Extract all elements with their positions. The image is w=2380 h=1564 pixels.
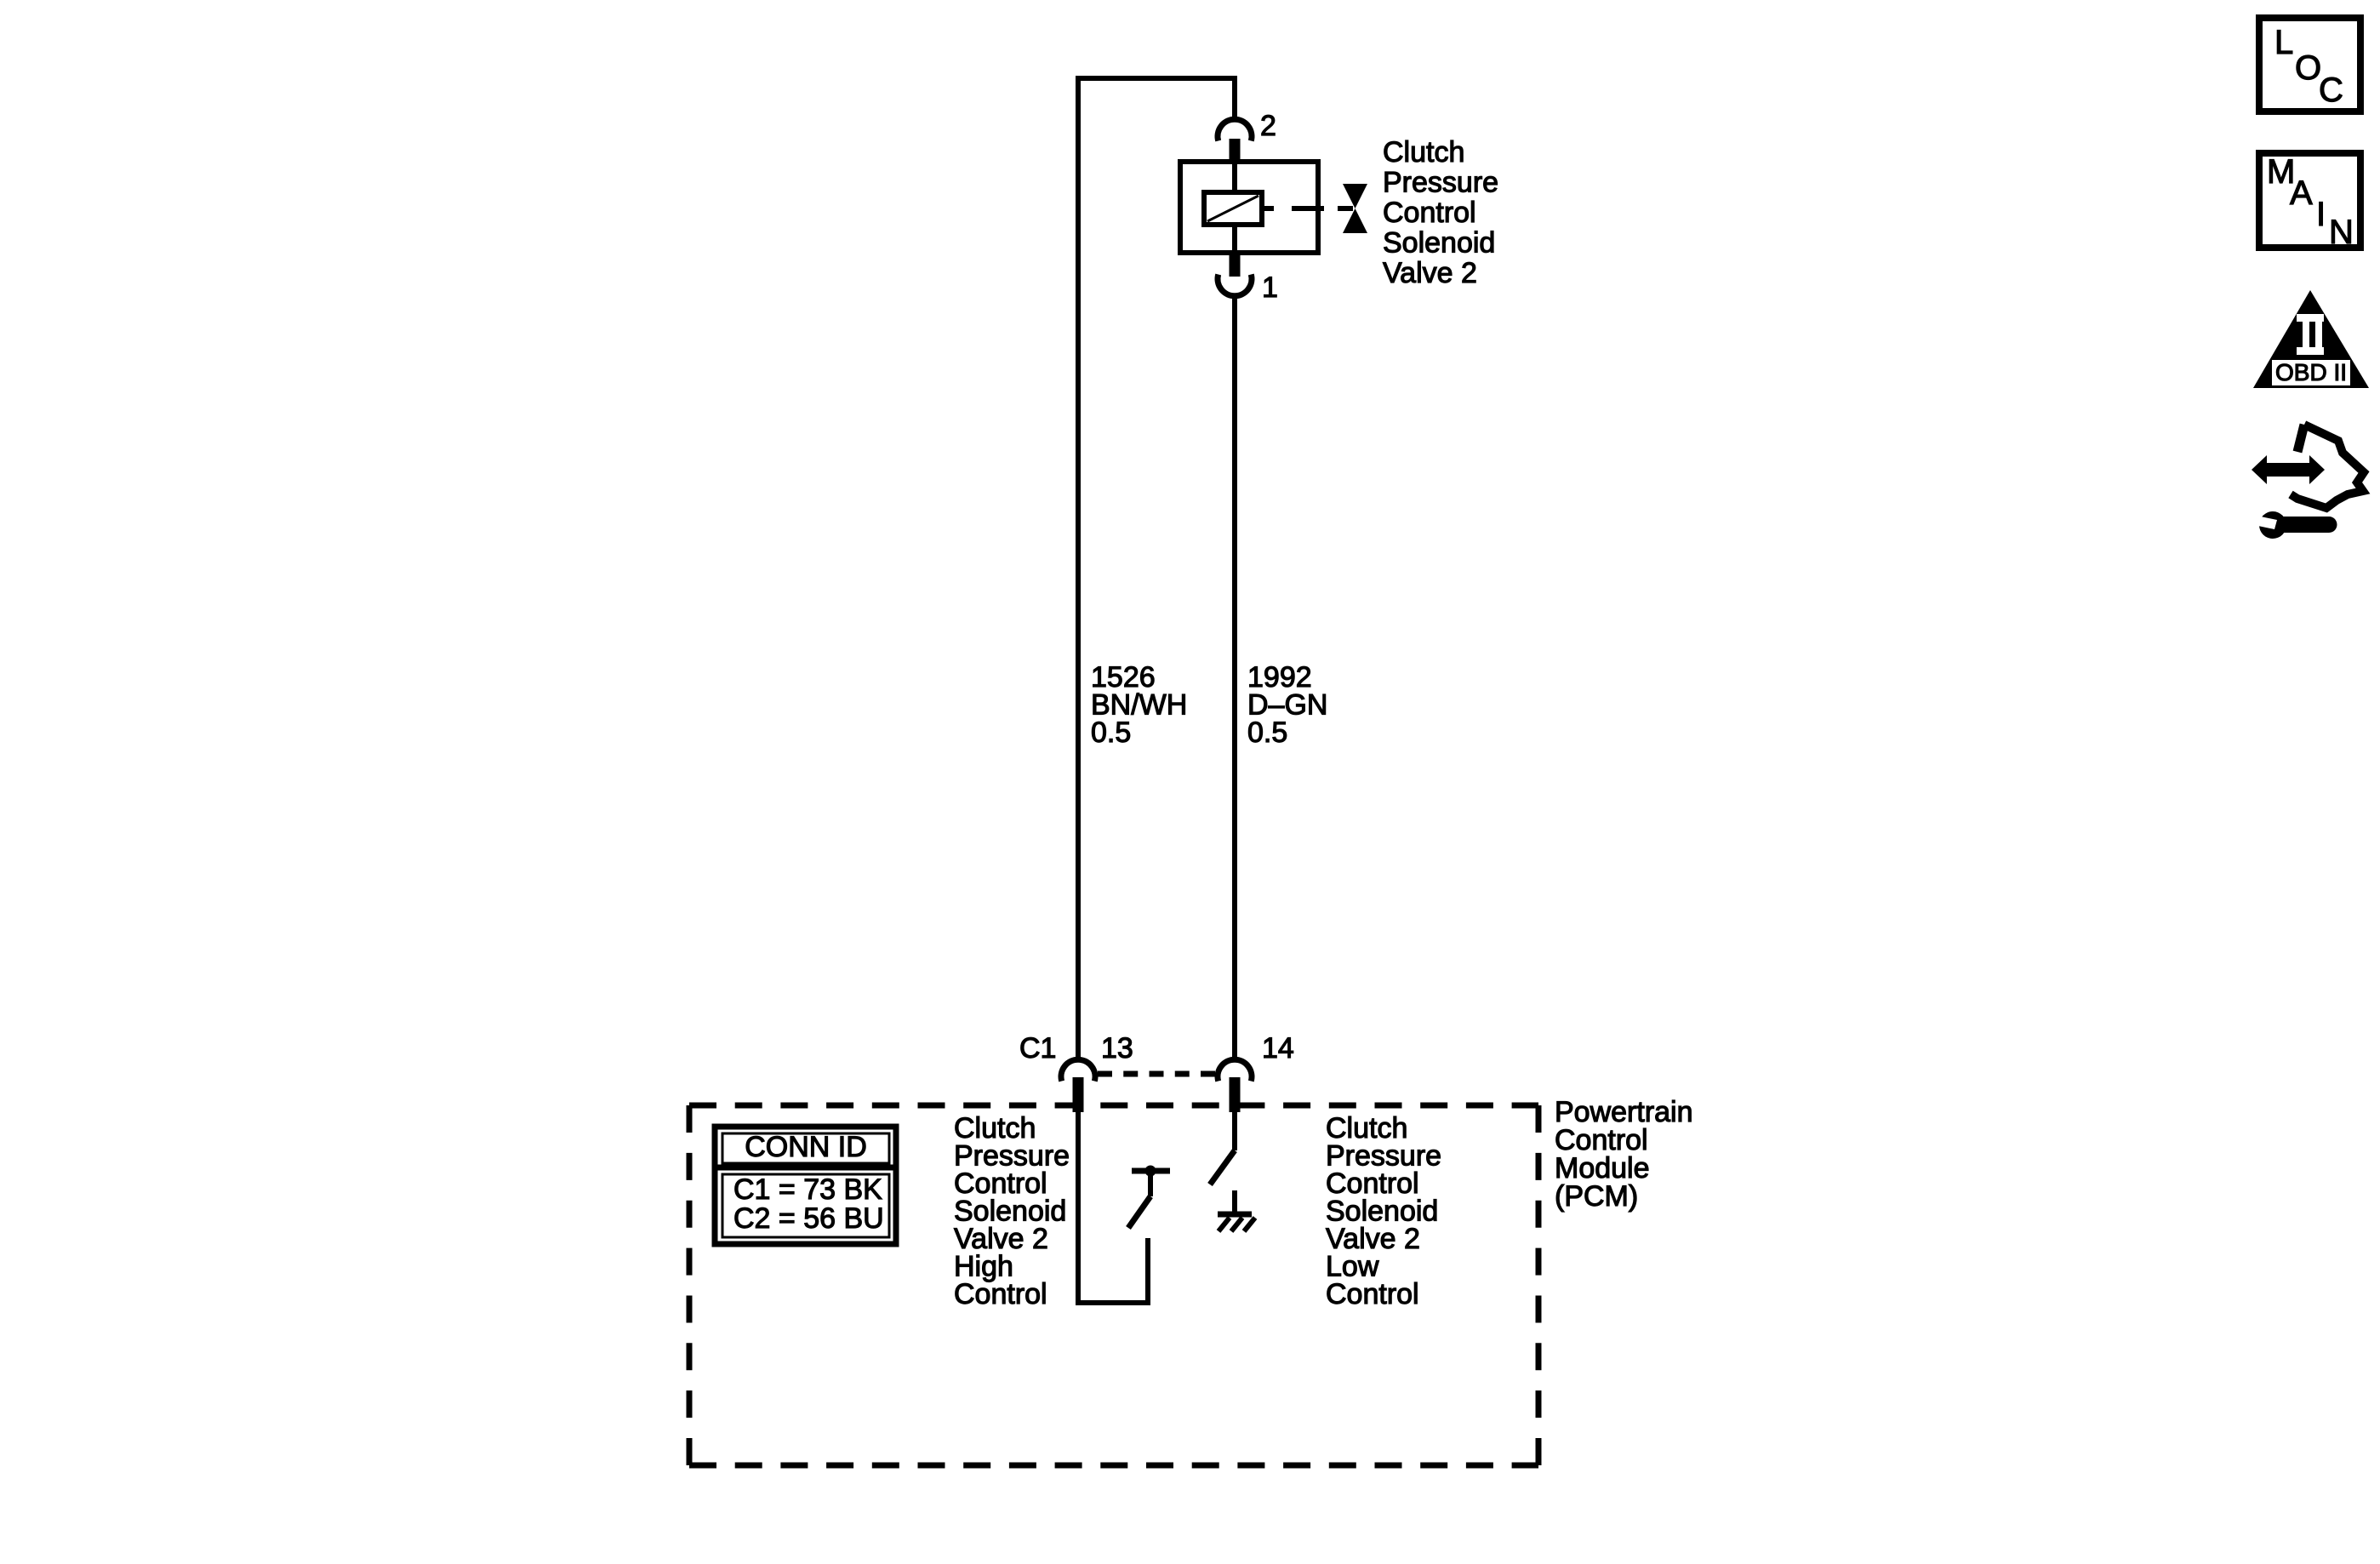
PCM label: Powertrain Control Module (PCM)	[1555, 1096, 1693, 1213]
svg-text:N: N	[2329, 214, 2354, 251]
CONN ID row C1 = 73 BK	[733, 1173, 882, 1206]
connector C1 dashed gang line between pins	[1098, 1071, 1215, 1077]
svg-text:Solenoid: Solenoid	[1383, 227, 1495, 260]
pin 13 number label	[1101, 1032, 1133, 1065]
PCM pin 13 internal wire hook	[1078, 1112, 1148, 1303]
svg-text:L: L	[2274, 24, 2293, 61]
svg-text:C: C	[2319, 71, 2343, 109]
pin number 2 label	[1260, 110, 1276, 142]
connector C1 label	[1019, 1032, 1056, 1065]
svg-text:A: A	[2290, 174, 2313, 212]
PCM high control pin function label	[954, 1112, 1070, 1310]
pin 14 number label	[1262, 1032, 1294, 1065]
svg-text:OBD II: OBD II	[2275, 359, 2347, 385]
solenoid coil rectangle	[1204, 192, 1262, 225]
PCM internal ground stem	[1232, 1190, 1237, 1214]
svg-text:(PCM): (PCM)	[1555, 1180, 1638, 1213]
CONN ID table outer box	[715, 1127, 896, 1244]
LOC legend box	[2259, 18, 2360, 111]
OBD II warning triangle	[2253, 290, 2369, 388]
solenoid coil lead wire (bottom, inside box)	[1232, 224, 1237, 253]
svg-text:13: 13	[1101, 1032, 1133, 1065]
PCM pin 14 internal wire	[1232, 1112, 1237, 1150]
CONN ID table body cell inner box	[722, 1174, 889, 1237]
svg-text:Valve 2: Valve 2	[1383, 257, 1477, 289]
PCM internal chassis ground symbol	[1218, 1214, 1255, 1231]
wire label 1526 BN/WH 0.5	[1091, 661, 1187, 749]
CONN ID table header cell inner box	[722, 1133, 889, 1163]
PCM high-side driver switch stem	[1148, 1171, 1153, 1196]
PCM high-side driver node dot	[1145, 1166, 1156, 1177]
solenoid L1 body box	[1180, 162, 1318, 253]
connector pin 2 female arc	[1218, 119, 1252, 140]
connector C1 pin 13 male stub	[1073, 1077, 1084, 1112]
connector C1 pin 13 female arc	[1061, 1059, 1095, 1081]
solenoid name label: Clutch Pressure Control Solenoid Valve 2	[1383, 136, 1498, 289]
connector C1 pin 14 female arc	[1218, 1059, 1252, 1081]
wire from solenoid pin 2 up and over to left drop (net to PCM pin 13)	[1078, 78, 1235, 1058]
svg-text:CONN ID: CONN ID	[745, 1131, 867, 1163]
pin number 1 label	[1262, 271, 1278, 304]
svg-text:Control: Control	[954, 1278, 1047, 1310]
connector C1 pin 14 male stub	[1230, 1077, 1241, 1112]
svg-text:Clutch: Clutch	[1383, 136, 1464, 168]
wire from solenoid pin 1 down to PCM pin 14	[1232, 298, 1237, 1058]
PCM low control pin function label	[1326, 1112, 1441, 1310]
PCM high-side driver switch blade	[1128, 1196, 1150, 1228]
svg-text:C2 = 56 BU: C2 = 56 BU	[733, 1202, 884, 1235]
solenoid coil lead wire (top, inside box)	[1232, 163, 1237, 193]
valve symbol tick	[1338, 206, 1353, 211]
CONN ID header text	[745, 1131, 867, 1163]
PCM low-side driver switch blade	[1210, 1150, 1235, 1184]
svg-text:Pressure: Pressure	[1383, 167, 1498, 199]
svg-text:2: 2	[1260, 110, 1276, 142]
svg-text:0.5: 0.5	[1247, 716, 1287, 749]
PCM high-side driver node bar	[1132, 1168, 1170, 1174]
svg-text:C1 = 73 BK: C1 = 73 BK	[733, 1173, 882, 1206]
diagnostic connector icon with double arrow and wrench	[2252, 425, 2364, 539]
PCM dashed border box	[689, 1105, 1538, 1465]
wire label 1992 D-GN 0.5	[1247, 661, 1327, 749]
svg-text:O: O	[2295, 49, 2321, 87]
svg-text:Control: Control	[1326, 1278, 1419, 1310]
MAIN legend box	[2259, 153, 2360, 251]
solenoid armature dashed link to valve	[1262, 206, 1324, 211]
CONN ID table divider	[715, 1165, 896, 1171]
svg-text:Control: Control	[1383, 197, 1476, 229]
svg-text:14: 14	[1262, 1032, 1294, 1065]
connector pin 1 male stub	[1230, 253, 1241, 277]
svg-text:1: 1	[1262, 271, 1278, 304]
svg-text:C1: C1	[1019, 1032, 1056, 1065]
connector pin 1 female arc	[1218, 275, 1252, 296]
CONN ID row C2 = 56 BU	[733, 1202, 884, 1235]
valve symbol bowtie	[1343, 184, 1367, 233]
connector pin 2 male stub	[1230, 139, 1241, 163]
svg-text:I: I	[2316, 196, 2326, 233]
svg-text:0.5: 0.5	[1091, 716, 1131, 749]
